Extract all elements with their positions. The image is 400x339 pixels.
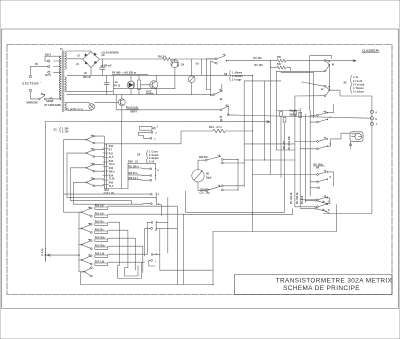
center vertical x270 bbox=[269, 61, 271, 175]
vertical x177 bbox=[156, 227, 177, 229]
+rail top bbox=[102, 58, 162, 60]
long wire y214 bbox=[183, 213, 292, 215]
svg-text:g: g bbox=[330, 177, 332, 179]
bank2 feed arrow bbox=[45, 254, 79, 256]
switch bank pair C arm 2 bbox=[317, 177, 332, 183]
svg-text:M1: M1 bbox=[206, 174, 210, 176]
svg-text:2. 150: 2. 150 bbox=[62, 132, 69, 134]
left bus vertical x45 bbox=[44, 122, 46, 262]
wire y231.5 up to bank bbox=[213, 205, 337, 232]
svg-text:2: 2 bbox=[158, 204, 160, 206]
wire sec1 top to bridge bbox=[67, 50, 91, 52]
svg-text:2. I'm dir: 2. I'm dir bbox=[353, 81, 362, 83]
svg-text:50µA: 50µA bbox=[206, 176, 212, 179]
svg-text:s: s bbox=[156, 133, 158, 135]
svg-text:C. 4,7µ: C. 4,7µ bbox=[41, 248, 44, 256]
svg-text:RV. 30b 2k: RV. 30b 2k bbox=[297, 192, 299, 204]
svg-text:SCHEMA DE PRINCIPE: SCHEMA DE PRINCIPE bbox=[283, 285, 360, 292]
zener diode OAZ bbox=[127, 75, 135, 94]
switch S9 pole 2 bbox=[213, 84, 222, 100]
svg-text:R13: R13 bbox=[109, 168, 114, 170]
label RV 163a bbox=[314, 164, 326, 169]
svg-text:2m: 2m bbox=[115, 82, 118, 84]
junction x213 bbox=[212, 284, 213, 285]
wire T3 left bbox=[95, 101, 119, 103]
svg-text:-20: -20 bbox=[84, 73, 88, 75]
svg-text:SC: SC bbox=[344, 80, 348, 84]
svg-text:3. I'm indir: 3. I'm indir bbox=[353, 84, 365, 86]
svg-text:g: g bbox=[155, 230, 157, 232]
svg-text:5. Lecture: 5. Lecture bbox=[353, 91, 365, 94]
switch R42 bbox=[205, 155, 223, 164]
svg-text:et 500 mF: et 500 mF bbox=[101, 64, 112, 67]
label -20 450mF bbox=[83, 73, 92, 79]
lamp L bbox=[89, 102, 95, 109]
wire to switch bbox=[31, 92, 39, 99]
wires to pair f bbox=[141, 222, 151, 262]
long bus wire y121.5 bbox=[45, 121, 269, 123]
RV box on x281 bbox=[280, 111, 283, 116]
bottom right switch f2 bbox=[315, 200, 329, 205]
bank2 bottom pair bbox=[79, 267, 92, 277]
wire y81.9 bbox=[301, 82, 324, 86]
switch bank pair A arm 2 bbox=[317, 117, 332, 123]
transformer T1 primary winding bbox=[59, 56, 61, 100]
rail 0V mid bbox=[67, 74, 253, 76]
svg-text:3. Usage: 3. Usage bbox=[232, 80, 242, 82]
svg-text:PU (5.2.8): PU (5.2.8) bbox=[126, 105, 138, 109]
resistor RV16b bbox=[270, 61, 290, 72]
label S9 bracket bbox=[224, 71, 243, 82]
svg-text:R12: R12 bbox=[109, 161, 114, 163]
switch R43 bbox=[205, 185, 223, 192]
chain resistor labels bbox=[109, 146, 115, 188]
svg-text:MARCHE: MARCHE bbox=[27, 101, 39, 105]
bank2 pivot 2 bbox=[79, 223, 92, 233]
meter loop enclosure wire bbox=[186, 124, 285, 213]
svg-text:2 N: 2 N bbox=[181, 64, 185, 66]
svg-text:30b 2k: 30b 2k bbox=[289, 115, 297, 117]
S1 pivot 1 bbox=[86, 135, 95, 144]
svg-text:RV. 16a: RV. 16a bbox=[254, 58, 263, 60]
svg-text:2. Grand: 2. Grand bbox=[149, 155, 159, 157]
svg-text:RV. 30a 1k: RV. 30a 1k bbox=[291, 192, 293, 204]
resistor RV16a bbox=[277, 59, 286, 62]
junction x252 bbox=[252, 130, 253, 131]
pair C feeds bbox=[310, 172, 333, 186]
svg-text:4. Témoin: 4. Témoin bbox=[353, 87, 364, 90]
meter loop wires right bbox=[223, 159, 244, 190]
title block bbox=[235, 275, 393, 295]
svg-text:1: 1 bbox=[158, 194, 160, 196]
vertical x167 bbox=[156, 221, 168, 223]
resistor RV24 bbox=[162, 57, 172, 60]
svg-text:TRANSISTORMETRE 302A METRIX: TRANSISTORMETRE 302A METRIX bbox=[276, 278, 393, 285]
svg-text:OAZ..: OAZ.. bbox=[146, 90, 153, 94]
svg-text:280 n: 280 n bbox=[109, 171, 115, 173]
T3 emitter drop bbox=[121, 106, 123, 122]
primary tap wires bbox=[45, 56, 61, 72]
svg-text:2m: 2m bbox=[102, 55, 105, 57]
svg-text:S9: S9 bbox=[224, 72, 228, 76]
svg-text:R42 50n: R42 50n bbox=[199, 156, 208, 159]
DUT socket bbox=[350, 132, 363, 142]
S9 pole 3 feed bbox=[116, 95, 220, 110]
pair B feeds bbox=[295, 139, 331, 149]
common bar f bbox=[155, 221, 157, 230]
svg-text:i: i bbox=[155, 262, 156, 264]
wire sec1 mid to bridge left bbox=[67, 58, 83, 60]
svg-text:SECTEUR~: SECTEUR~ bbox=[22, 81, 42, 86]
label S2 bracket bbox=[137, 150, 159, 164]
contact pair h bbox=[151, 254, 158, 264]
wire bridge + output bbox=[100, 58, 103, 60]
terminal c bbox=[370, 122, 378, 126]
vertical x213 bbox=[212, 232, 214, 285]
switch bank pair D arm 1 bbox=[317, 196, 328, 201]
svg-text:715 n: 715 n bbox=[109, 164, 115, 166]
bottom right switch feeds bbox=[300, 198, 330, 208]
svg-text:30a 1k: 30a 1k bbox=[289, 111, 297, 113]
resistor R22 row bbox=[128, 173, 152, 176]
rail -V low bbox=[67, 94, 213, 96]
rail sec2 bottom bbox=[67, 91, 114, 93]
resistor row R53 bbox=[95, 229, 108, 233]
svg-text:t: t bbox=[155, 138, 156, 141]
svg-text:CLASSEUR.: CLASSEUR. bbox=[362, 48, 380, 52]
secteur terminal bottom bbox=[29, 89, 31, 91]
svg-text:8,7: 8,7 bbox=[109, 149, 113, 151]
svg-text:R43 50n: R43 50n bbox=[201, 189, 210, 192]
label SC bracket bbox=[344, 76, 365, 94]
svg-text:1. Vo: 1. Vo bbox=[353, 77, 359, 79]
pole3 spare contact stub bbox=[220, 120, 222, 122]
bridge rectifier bbox=[83, 52, 100, 68]
resistor R20 row bbox=[128, 160, 140, 164]
label PU 528 bbox=[126, 105, 139, 113]
resistor R23 row bbox=[128, 178, 152, 181]
junction RV16 bbox=[270, 60, 271, 61]
svg-text:-31: -31 bbox=[77, 56, 81, 58]
transistor T2 bbox=[141, 75, 158, 94]
svg-text:71,5k: 71,5k bbox=[109, 179, 115, 181]
wire y143.9 bbox=[244, 143, 295, 145]
vertical x183 bbox=[182, 214, 184, 285]
svg-text:1: 1 bbox=[157, 127, 159, 129]
bus vertical 2 bbox=[299, 108, 301, 207]
resistor chain bar bbox=[103, 144, 108, 189]
wire hook top right bbox=[310, 56, 332, 110]
svg-text:R11: R11 bbox=[109, 154, 114, 156]
label 2m PV13 bbox=[114, 82, 121, 88]
svg-text:M: M bbox=[332, 64, 334, 66]
switch S9 pole 1 bbox=[215, 54, 227, 64]
wire y110.5 bbox=[276, 110, 300, 112]
wire y160 bbox=[244, 159, 295, 161]
svg-text:x2: x2 bbox=[321, 89, 324, 91]
svg-text:R10: R10 bbox=[109, 146, 114, 148]
switch SC pole 1 bbox=[324, 56, 332, 72]
svg-text:220 V: 220 V bbox=[45, 54, 51, 56]
vertical x238 bbox=[237, 159, 239, 190]
T1 emitter wire down bbox=[174, 68, 176, 89]
capacitor C32 bbox=[104, 75, 109, 94]
meter M bbox=[192, 170, 204, 182]
svg-text:2. Mesure: 2. Mesure bbox=[232, 76, 243, 78]
svg-text:T1: T1 bbox=[60, 49, 63, 51]
switch bank pair B arm 2 bbox=[317, 144, 332, 150]
svg-text:T1 (ATM 10.2): T1 (ATM 10.2) bbox=[66, 108, 83, 112]
svg-text:R41 - 4,7 n: R41 - 4,7 n bbox=[209, 125, 222, 129]
wires pair h bbox=[149, 230, 213, 271]
label R19 sum bbox=[104, 190, 114, 195]
svg-text:R20 - 21: R20 - 21 bbox=[128, 160, 139, 164]
switch bank pair D arm 2 bbox=[317, 202, 331, 208]
rail S9 to right bbox=[227, 60, 277, 62]
wire sec3 to lamp bottom bbox=[67, 109, 92, 112]
rail end arrow bbox=[353, 60, 356, 62]
resistor row R50 bbox=[95, 205, 108, 209]
terminal e bbox=[370, 110, 377, 114]
wire b feed bbox=[229, 115, 370, 118]
bottom long wire y284.5 bbox=[81, 284, 214, 286]
svg-text:.58: .58 bbox=[35, 64, 39, 66]
label GAINE ET CARCASSE bbox=[45, 98, 62, 107]
resistor box R bbox=[138, 75, 141, 94]
resistor R21 row bbox=[128, 166, 152, 169]
resistor row R55 bbox=[95, 245, 108, 249]
svg-text:RV. 187a 22k: RV. 187a 22k bbox=[289, 135, 291, 150]
S2 right common bar bbox=[140, 163, 160, 180]
svg-text:g: g bbox=[328, 210, 330, 212]
label OAZ bbox=[146, 90, 154, 94]
R41 rail bbox=[106, 129, 253, 144]
transformer T1 secondary winding 3 bbox=[65, 102, 67, 110]
wires S2 left to chain bbox=[107, 163, 128, 188]
svg-text:71,5: 71,5 bbox=[109, 186, 114, 188]
svg-text:500: 500 bbox=[277, 57, 282, 59]
transistor T1 series bbox=[171, 59, 179, 68]
wire y150 bbox=[276, 149, 295, 151]
rail to SC bbox=[287, 60, 356, 62]
pair D feeds bbox=[295, 200, 317, 207]
wire bank D to vert bbox=[326, 211, 330, 213]
terminal vertical wire bbox=[371, 96, 373, 214]
wire SC to terminal e bbox=[329, 90, 372, 96]
bank2 vertical common bbox=[78, 212, 80, 271]
S1 pivot 4 bbox=[86, 178, 95, 187]
resistor row R52 bbox=[95, 221, 108, 225]
svg-text:RV. 157: RV. 157 bbox=[284, 140, 286, 149]
bottom right switch g2 bbox=[315, 208, 330, 213]
svg-text:RV. 16b: RV. 16b bbox=[255, 65, 264, 67]
svg-text:PY 490 + AU 220 m: PY 490 + AU 220 m bbox=[112, 71, 137, 75]
svg-text:C21 , 10µ: C21 , 10µ bbox=[200, 192, 211, 194]
chain arm links bbox=[95, 136, 105, 186]
vertical x244 bbox=[243, 81, 245, 186]
junction y214 bbox=[252, 213, 253, 214]
+rail to S9 bbox=[172, 58, 216, 60]
S2 top contact b bbox=[144, 136, 156, 142]
wire into socket bbox=[331, 133, 352, 148]
svg-text:1. 300: 1. 300 bbox=[62, 128, 69, 130]
SC common vertical bbox=[328, 66, 330, 91]
transformer T1 secondary winding 2 bbox=[65, 77, 67, 92]
schematic border bbox=[7, 45, 392, 295]
svg-text:450 mF: 450 mF bbox=[83, 76, 92, 79]
S1 pivot 2 bbox=[86, 148, 95, 157]
switch S9 pole 3 bbox=[220, 105, 229, 121]
svg-text:0,9: 0,9 bbox=[196, 64, 200, 66]
switch SC pole 2 bbox=[324, 85, 330, 96]
right vertical psu bbox=[201, 59, 203, 75]
bank2 pivot 4 bbox=[79, 255, 92, 265]
center vertical x276 bbox=[275, 71, 277, 150]
svg-text:1. Court: 1. Court bbox=[149, 150, 158, 153]
svg-text:10k: 10k bbox=[316, 168, 321, 170]
rail mid short bbox=[113, 88, 175, 90]
svg-text:h: h bbox=[156, 254, 158, 256]
S2 top contact a bbox=[138, 131, 157, 135]
wire y72.6 bbox=[281, 72, 313, 74]
svg-text:e: e bbox=[376, 111, 378, 114]
vertical x281 bbox=[280, 116, 282, 177]
meter mA bbox=[188, 59, 195, 95]
bottom hooks bbox=[118, 262, 142, 278]
wire y96 bbox=[295, 95, 324, 97]
label PY490 bbox=[112, 71, 148, 75]
svg-text:R15: R15 bbox=[109, 183, 114, 185]
svg-text:GAINE: GAINE bbox=[46, 100, 54, 103]
bus vertical 1 bbox=[294, 96, 296, 207]
vertical x121 to S2 bbox=[120, 122, 122, 189]
resistor row R56 bbox=[95, 253, 108, 257]
bank2 pivot 3 bbox=[79, 239, 92, 249]
junction dots meter bbox=[237, 75, 265, 191]
center vertical x264 bbox=[264, 81, 266, 160]
switch bank pair C arm 1 bbox=[317, 170, 328, 175]
bundle wires to contacts bbox=[64, 194, 156, 212]
meter top wire bbox=[198, 160, 205, 169]
label R43 C21 bbox=[200, 189, 211, 195]
svg-text:1. Allumé: 1. Allumé bbox=[232, 71, 243, 74]
bus vertical 4 bbox=[309, 110, 311, 196]
bus vertical 5 bbox=[312, 73, 314, 118]
svg-text:PV 13: PV 13 bbox=[114, 86, 121, 88]
svg-text:S1: S1 bbox=[54, 128, 58, 132]
wire y71 to SC bbox=[276, 70, 324, 72]
svg-text:RV. 24: RV. 24 bbox=[158, 55, 166, 59]
switch bank pair A arm 1 bbox=[317, 111, 328, 116]
label S1 bracket bbox=[54, 127, 70, 133]
tap circles bbox=[45, 60, 50, 74]
switch bank pair B arm 1 bbox=[317, 137, 328, 142]
svg-text:S2: S2 bbox=[137, 153, 141, 157]
S9 pole feeds bbox=[206, 59, 215, 96]
filter capacitor C 2m bbox=[100, 59, 105, 75]
svg-text:3. Moyen: 3. Moyen bbox=[149, 158, 159, 160]
meter bottom wire bbox=[198, 182, 205, 191]
svg-text:ET CARCASSE: ET CARCASSE bbox=[45, 104, 62, 107]
svg-text:c: c bbox=[376, 123, 378, 126]
contact pair f bbox=[151, 222, 157, 232]
pair A feeds bbox=[310, 104, 333, 122]
secteur terminal top bbox=[29, 76, 31, 78]
bank2 row outputs bbox=[108, 206, 184, 272]
svg-text:R14: R14 bbox=[109, 174, 114, 177]
svg-text:b: b bbox=[376, 117, 378, 121]
S1 pivot 3 bbox=[86, 163, 95, 172]
transformer T1 core bbox=[60, 49, 64, 112]
resistor row R57 bbox=[95, 261, 108, 265]
bank2 common bottom hook bbox=[81, 272, 85, 285]
secteur feed wire bbox=[31, 66, 48, 75]
resistor row R54 bbox=[95, 236, 108, 241]
transformer T1 secondary winding 1 bbox=[65, 51, 67, 69]
bank2 pivot 1 bbox=[79, 207, 92, 217]
transistor T3 pilot bbox=[118, 95, 125, 106]
wire y80.9 bbox=[244, 80, 281, 82]
resistor row R51 bbox=[95, 213, 108, 217]
svg-text:R19: R19 bbox=[105, 190, 110, 192]
S1 staircase feeds bbox=[64, 140, 86, 205]
wire switch to primary bbox=[46, 98, 61, 100]
svg-text:u: u bbox=[158, 170, 160, 172]
interrupteur MARCHE bbox=[38, 94, 46, 100]
relay box R bbox=[140, 126, 159, 130]
label M1 50uA bbox=[206, 174, 212, 180]
center vertical x252 bbox=[252, 75, 254, 231]
svg-text:71,5: 71,5 bbox=[109, 157, 114, 159]
svg-text:-31: -31 bbox=[76, 64, 80, 66]
vertical link bbox=[112, 75, 114, 94]
bus vertical 3 bbox=[304, 114, 306, 202]
wire bridge bottom to rail bbox=[90, 68, 92, 76]
wire sec3 to lamp top bbox=[67, 101, 89, 103]
svg-text:110 V: 110 V bbox=[45, 75, 51, 77]
terminal b bbox=[370, 117, 377, 121]
contact pair d bbox=[150, 193, 161, 216]
pair C extra contact bbox=[310, 187, 319, 189]
